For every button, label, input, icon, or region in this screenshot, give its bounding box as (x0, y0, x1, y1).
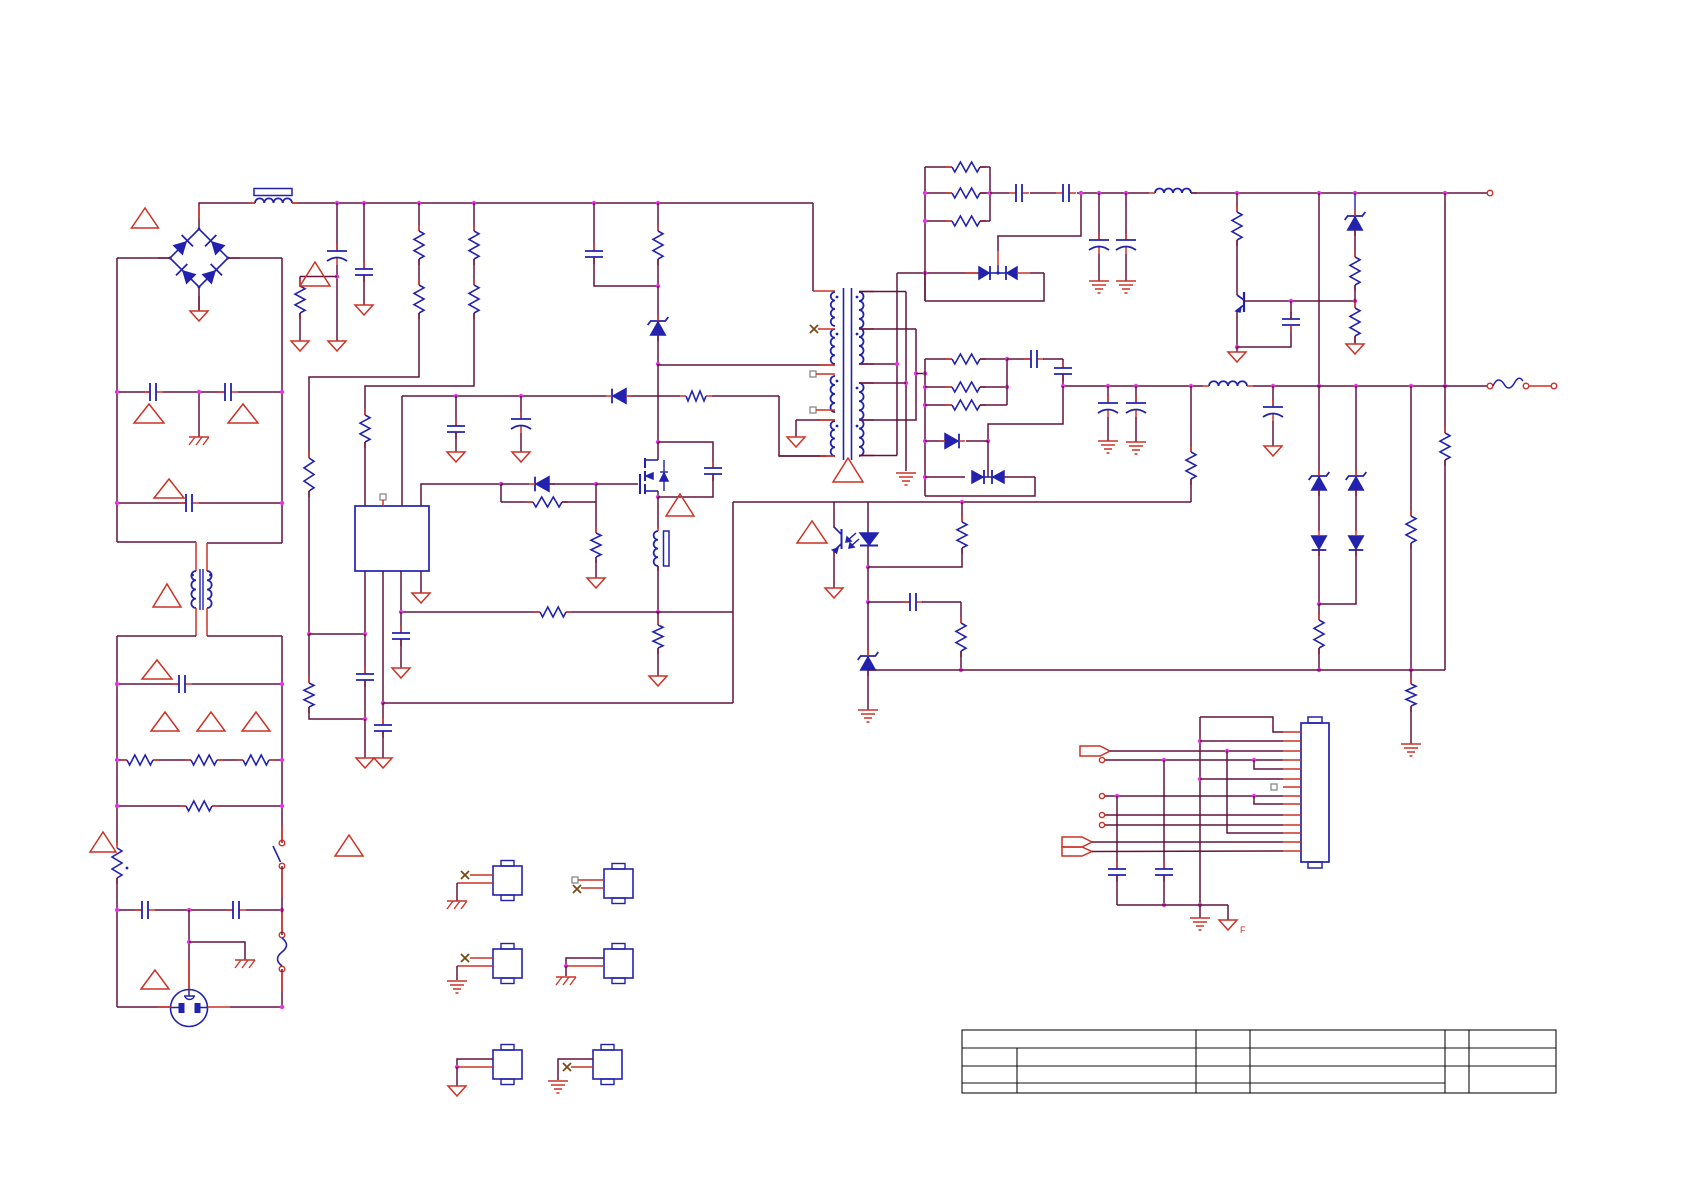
optocoupler U2 arrows (847, 533, 856, 541)
wire pin4 (1105, 759, 1283, 761)
resistor R19 (1190, 386, 1192, 452)
J4 pin bottom (457, 965, 493, 967)
capacitor C23 (868, 601, 910, 603)
title block table (962, 1030, 1556, 1093)
resistor R11 loop (500, 484, 502, 502)
resistor R5 (308, 452, 310, 458)
wire left rail lower (116, 878, 118, 1007)
capacitor C4 branch (363, 203, 365, 269)
capacitor C4 (363, 262, 365, 269)
resistor R2 (180, 805, 186, 807)
snubber loop C8 (658, 442, 713, 468)
resistor R12 (595, 502, 597, 533)
node row392 wire (117, 391, 150, 393)
T2 primary winding P2 (831, 329, 835, 364)
wire row703 (383, 702, 733, 704)
resistor R21 (1410, 386, 1412, 516)
J7 pin bottom (571, 1066, 593, 1068)
capacitor CX1 (179, 502, 186, 504)
ground (355, 305, 373, 315)
T2 pin square B (810, 407, 816, 413)
wire C5 loop (594, 257, 658, 286)
T2 pin X (810, 325, 818, 333)
wire emitter (1236, 347, 1238, 352)
diode D8 (1312, 536, 1327, 549)
resistor R25 (925, 386, 952, 388)
U1 bottom pin2 (382, 571, 384, 703)
triangle warn 14 (666, 494, 694, 516)
capacitor C18 polarized (1107, 386, 1109, 403)
bridge pin stubs (198, 205, 200, 219)
wire v1445 (1444, 193, 1446, 386)
wire v1227 pin12 (1227, 751, 1283, 833)
wire rail273 (897, 272, 981, 274)
wire rail670 (868, 669, 1445, 671)
capacitor C25 (1163, 760, 1165, 869)
resistor R7a (473, 225, 475, 231)
capacitor C14 (1056, 192, 1063, 194)
wire pin8 (1105, 795, 1283, 797)
transformer T1 right coil (207, 571, 212, 608)
capacitor C9a (135, 909, 142, 911)
ground (447, 452, 465, 462)
wire rail502 (733, 501, 1191, 503)
capacitor C15 polarized (1098, 193, 1100, 240)
current sense transformer L2 (657, 497, 659, 529)
node row684 wire (117, 683, 179, 685)
harness arrow F double (1062, 837, 1092, 847)
capacitor C3 branch (336, 203, 338, 251)
wire row373 (916, 373, 925, 375)
terminal circle E (1099, 822, 1104, 827)
resistor R15b (925, 192, 952, 194)
wire to chassis (198, 392, 200, 437)
triangle warn 5 (153, 584, 181, 607)
S1 tap pin (859, 328, 916, 330)
T2 pin stubs red (820, 364, 835, 366)
jumper J4 body (493, 949, 522, 978)
capacitor C16 polarized (1125, 193, 1127, 240)
pin7 square (1271, 784, 1277, 790)
triangle warn 16 (797, 521, 827, 543)
wire v1200 (1199, 717, 1201, 905)
wire rail396 left down to IC (401, 396, 403, 506)
chassis ground (556, 976, 576, 978)
T2 pin square A (810, 371, 816, 377)
wire LED down (867, 567, 869, 602)
capacitor C6 (455, 396, 457, 426)
resistor R4b (418, 279, 420, 285)
J6 pin top (457, 1059, 493, 1067)
resistor R15a (925, 166, 952, 168)
S4 bottom pin (859, 455, 897, 457)
chassis ground (447, 900, 467, 902)
T2 secondary winding S1 (859, 292, 864, 364)
triangle warn 12 (141, 970, 169, 989)
resistor R20 (1318, 604, 1320, 620)
chassis ground (189, 436, 209, 438)
T2 primary winding P1 (831, 292, 835, 326)
zener D13 TL431 (867, 602, 869, 656)
wire v733 (732, 502, 734, 703)
resistor R18 (1354, 301, 1356, 308)
svg-text:F: F (1240, 925, 1246, 935)
jumper J6 body (493, 1050, 522, 1079)
ground (392, 668, 410, 678)
signal ground (1199, 905, 1201, 918)
wire plug bottom row (208, 1006, 231, 1008)
diode D10 (1349, 536, 1364, 549)
resistor R9 branch (657, 203, 659, 231)
transformer T2 core (843, 288, 845, 460)
signal ground (896, 472, 916, 474)
resistor R4a (418, 225, 420, 231)
diode D4 (501, 483, 529, 485)
wire plug center (188, 910, 190, 990)
wire D5 bypass (925, 273, 1044, 301)
AC plug J1 (171, 990, 208, 1027)
ground (374, 758, 392, 768)
wire row905 (1117, 904, 1228, 906)
signal ground (447, 980, 467, 982)
wire pin9 jog (1254, 796, 1283, 804)
jumper J2 body (493, 866, 522, 895)
wire v1319 upper (1318, 193, 1320, 386)
capacitor CX2 (172, 683, 179, 685)
T2 primary winding P3 (831, 376, 836, 412)
wire T1 primary top (117, 541, 196, 543)
wire 12V rail (1191, 192, 1487, 194)
zener D2 (657, 286, 659, 322)
resistor R9 (657, 225, 659, 231)
wire pin13 (1092, 841, 1283, 843)
wire top rail to P1 (812, 203, 814, 291)
node top rail dots (335, 201, 339, 205)
bridge rectifier BD1 (199, 229, 228, 258)
wire pin10 (1105, 814, 1283, 816)
signal ground (1089, 280, 1109, 282)
capacitor C5 branch (593, 203, 595, 251)
T2 P4 top pin (796, 419, 835, 421)
triangle warn 1 (132, 208, 159, 228)
triangle warn 11 (335, 835, 363, 856)
resistor R28 (960, 602, 962, 623)
resistor R14 (657, 612, 659, 625)
S3 top pin (859, 382, 906, 384)
ground (412, 593, 430, 603)
wire v925 lower (924, 359, 926, 496)
J5 pin top (566, 958, 604, 966)
optocoupler U2 transistor (833, 502, 835, 528)
triangle warn 4 (154, 479, 184, 498)
wire T1 secondary top (207, 542, 282, 544)
ground (649, 676, 667, 686)
capacitor CY2 (218, 391, 225, 393)
wire row719 (309, 707, 365, 719)
U1 bottom pin4 (420, 571, 422, 593)
J2 pin top (470, 874, 493, 876)
J5 pin bottom (566, 965, 604, 967)
T2 secondary winding S2 (859, 383, 864, 456)
resistor R1b (185, 759, 191, 761)
wire pin2 (1200, 740, 1283, 742)
wire rail396 (402, 395, 606, 397)
wire pin11 (1105, 824, 1283, 826)
U1 bottom pin1 (364, 571, 366, 634)
jumper J3 body (604, 869, 633, 898)
op-amp U1 PWM controller (355, 506, 429, 571)
node row806 wire (117, 805, 186, 807)
thermistor RT1 (116, 842, 118, 848)
wire to R3 (300, 276, 337, 278)
resistor R8 (364, 409, 366, 415)
capacitor C7 polarized (520, 396, 522, 419)
signal ground (1401, 743, 1421, 745)
resistor R13 (534, 611, 540, 613)
ground (825, 588, 843, 598)
ground F (1227, 905, 1229, 920)
resistor R16 (1236, 193, 1238, 212)
resistor R10 (680, 395, 686, 397)
triangle warn 2 (134, 404, 164, 423)
terminal circle B (1099, 757, 1104, 762)
transformer T1 left coil (191, 571, 196, 608)
harness arrow A (1080, 746, 1110, 756)
wire row634 (309, 633, 365, 635)
wire rail396 to T2 (779, 396, 826, 456)
wire to T2 pin3 (658, 364, 826, 366)
inductor L3 (1155, 189, 1191, 194)
ground (1228, 352, 1246, 362)
wire pin5 jog (1254, 760, 1283, 769)
wire v897 (896, 273, 898, 456)
J6 pin bottom (457, 1066, 493, 1068)
resistor R3 (299, 280, 301, 286)
capacitor C9b (226, 909, 233, 911)
fuse F1 body (254, 189, 292, 196)
fuse squiggle (1493, 378, 1523, 388)
ground (1346, 344, 1364, 354)
wire gate (596, 483, 638, 485)
ground (190, 311, 208, 321)
wire bypass bottom (925, 477, 1035, 496)
wire v1063 (1062, 359, 1064, 368)
wire v1007 (1006, 359, 1008, 405)
triangle warn 15 (833, 458, 863, 482)
ground (587, 578, 605, 588)
fuse F2 (279, 932, 285, 938)
pin marker square (380, 494, 386, 500)
wire bridge left to left rail (117, 257, 170, 259)
node row760 wire (117, 759, 127, 761)
wire U1 pin gate (421, 484, 501, 506)
J2 pin bottom (457, 882, 493, 884)
J4 pin top (470, 957, 493, 959)
diode D3 (613, 389, 626, 404)
signal ground (1098, 440, 1118, 442)
wire row193 (990, 192, 1009, 194)
capacitor C13 (1009, 192, 1016, 194)
terminal 5V (1487, 383, 1493, 389)
wire bridge bottom (198, 287, 200, 311)
ground (512, 452, 530, 462)
terminal circle D (1099, 812, 1104, 817)
wire main vertical (657, 364, 659, 442)
capacitor C5 (593, 244, 595, 251)
diode D5 pair (965, 272, 979, 274)
resistor R6 (308, 634, 310, 683)
switch SW1 (279, 840, 285, 846)
resistor R24 (925, 358, 952, 360)
wire R7 to IC pin (365, 313, 474, 415)
wire to chassis 2 (189, 942, 245, 960)
ground (356, 758, 374, 768)
wire T1 right bottom (206, 608, 208, 636)
diode D12 pair (925, 476, 965, 478)
capacitor C12 (400, 626, 402, 633)
triangle warn 3 (228, 404, 258, 423)
capacitor C10 (364, 667, 366, 674)
diode D11 (925, 440, 944, 442)
resistor R22 (1410, 670, 1412, 684)
J3 pin bottom (581, 887, 604, 889)
triangle warn 9 (242, 712, 270, 731)
wire pin6 (1200, 778, 1283, 780)
capacitor C22 (1062, 361, 1064, 368)
wire D5 center (997, 265, 999, 273)
wire R4 to IC rail (309, 313, 419, 458)
capacitor CY1 (143, 391, 150, 393)
capacitor C17 (1237, 327, 1291, 347)
wire v906 (905, 292, 907, 472)
J7 pin top (558, 1059, 593, 1080)
optocoupler U2 LED (867, 502, 869, 533)
terminal 12V (1487, 190, 1493, 196)
zener D6 (1354, 193, 1356, 216)
terminal circle C (1099, 793, 1104, 798)
resistor bank upper bus (924, 167, 926, 301)
wire red stubs right rail (281, 826, 283, 840)
wire pin1 loop (1200, 717, 1283, 732)
transistor Q1 MOSFET (639, 474, 641, 494)
wire (308, 491, 310, 634)
inductor L4 (1209, 381, 1247, 386)
wire base row (1243, 300, 1355, 302)
capacitor C3 polarized (336, 244, 338, 251)
triangle warn 7 (151, 712, 179, 731)
inductor L1 (255, 198, 292, 203)
wire 5V rail (1063, 385, 1203, 387)
ground (291, 341, 309, 351)
capacitor C24 (1116, 796, 1118, 869)
wire row612 (401, 611, 540, 613)
capacitor C11 (382, 718, 384, 725)
signal ground (548, 1080, 568, 1082)
ground (787, 437, 805, 447)
connector CN1 body (1301, 723, 1329, 862)
capacitor C20 polarized (1272, 386, 1274, 407)
resistor R1c (237, 759, 243, 761)
resistor R23 (1444, 386, 1446, 433)
wire AC top rail (199, 203, 255, 229)
wire T1 left bottom (195, 608, 197, 636)
resistor R1a (121, 759, 127, 761)
triangle warn 10 (90, 832, 116, 852)
wire v916 (859, 329, 916, 420)
jumper J5 body (604, 949, 633, 978)
resistor R15c (925, 220, 952, 222)
node row503 wire (117, 502, 186, 504)
triangle warn 13 (300, 262, 330, 286)
node row910 wire (117, 909, 142, 911)
ground (1264, 446, 1282, 456)
zener D9 (1355, 386, 1357, 476)
wire pin3 (1110, 750, 1283, 752)
resistor R27 (961, 502, 963, 522)
resistor R17 (1354, 251, 1356, 257)
transformer T1 core (199, 569, 201, 610)
S2 bottom pin (859, 363, 897, 365)
transistor Q2 NPN (1243, 292, 1245, 312)
signal ground (858, 709, 878, 711)
chassis ground 2 (235, 959, 255, 961)
connector CN1 pin stubs (1283, 731, 1301, 733)
U1 bottom pin3 (400, 571, 402, 612)
jumper J7 body (593, 1050, 622, 1079)
wire bridge right to right rail (228, 257, 282, 259)
T2 P4 bottom pin (779, 455, 835, 457)
resistor R7b (473, 279, 475, 285)
signal ground (1116, 280, 1136, 282)
resistor R26 (925, 404, 952, 406)
capacitor C21 (1007, 358, 1031, 360)
T2 primary winding P4 (831, 421, 835, 456)
J3 pin top (578, 879, 604, 881)
S1 top pin (859, 291, 906, 293)
triangle warn 8 (197, 712, 225, 731)
zener D7 (1318, 386, 1320, 476)
ground (448, 1086, 466, 1096)
wire jog (988, 386, 1063, 441)
triangle warn 6 (142, 660, 172, 679)
signal ground (1126, 441, 1146, 443)
resistor chain R4 branch (418, 203, 420, 231)
wire pin14 (1092, 850, 1283, 853)
resistor chain R7 branch (473, 203, 475, 231)
capacitor C19 polarized (1135, 386, 1137, 403)
ground (328, 341, 346, 351)
